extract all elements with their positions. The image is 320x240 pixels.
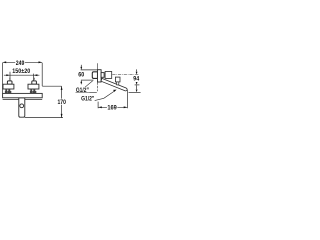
valve vertical centerline below	[96, 82, 98, 91]
mixer body lower line	[3, 99, 43, 101]
spout aerator circle	[20, 104, 24, 108]
dimension 150±20 extension line right	[33, 74, 35, 81]
svg-text:169: 169	[107, 105, 117, 112]
diverter knob on spout	[115, 77, 120, 82]
dimension 150±20 text	[12, 68, 31, 74]
svg-text:G1/2”: G1/2”	[81, 96, 94, 103]
dimension 249 line	[3, 61, 43, 63]
svg-text:249: 249	[16, 60, 25, 67]
svg-text:94: 94	[133, 76, 139, 83]
right fitting centerline dash	[33, 78, 35, 80]
spout (front)	[19, 98, 25, 117]
dimension 249 text	[15, 60, 25, 65]
dimension 150±20 outside arrow right	[34, 74, 38, 76]
left fitting cap	[7, 81, 12, 84]
dimension 60 line tails	[80, 65, 82, 67]
right fitting cap	[32, 81, 37, 84]
dimension 249 arrow left	[3, 61, 7, 63]
valve vertical centerline above	[96, 63, 98, 69]
right fitting nut	[28, 84, 39, 89]
dimension 150±20 line	[4, 74, 40, 76]
dimension 94 arrow at axis	[136, 72, 138, 75]
dimension 169 arrow right	[124, 106, 128, 108]
dimension 94 line middle segment	[136, 85, 138, 89]
dimension 170 arrow top	[61, 86, 63, 90]
right fitting feet	[30, 91, 33, 93]
dimension 60 text	[78, 72, 85, 78]
dimension 169 text	[107, 104, 118, 110]
diverter knob neck	[117, 82, 119, 85]
dimension 170 line	[61, 86, 63, 98]
dimension 170 arrow bottom	[61, 114, 63, 118]
dimension 60 outside arrow top	[80, 67, 82, 70]
dimension 170 bottom extension line	[25, 117, 63, 119]
dimension 249 arrow right	[39, 61, 43, 63]
dimension 150±20 outside arrow left	[6, 74, 10, 76]
mixer body (front)	[3, 93, 43, 97]
dimension 60 outside arrow bottom	[80, 80, 82, 83]
dimension 94 arrow at spout level	[136, 82, 138, 85]
valve body block (side)	[98, 70, 102, 82]
leader from G1/2" upper to wall union	[85, 81, 93, 87]
dimension 94 bottom extension line	[129, 91, 141, 93]
valve axis dash-dot right segment	[112, 74, 139, 76]
label G1/2" upper	[75, 87, 89, 92]
dimension 249 extension line left	[2, 63, 4, 93]
spout (side) angled bar	[101, 78, 127, 90]
svg-text:60: 60	[78, 72, 84, 79]
dimension 249 extension line right	[41, 63, 43, 86]
svg-text:170: 170	[57, 99, 66, 106]
dimension 169 right extension line	[126, 90, 128, 109]
leader arrowhead	[113, 90, 117, 92]
dimension 169 left extension line	[97, 102, 99, 109]
handle knob square (side)	[105, 72, 112, 79]
dimension 170 top extension line	[42, 85, 61, 87]
left fitting feet	[5, 91, 8, 93]
dimension 94 short line at spout level	[135, 84, 140, 86]
dimension 60 bottom extension line	[81, 79, 94, 81]
left fitting legs	[5, 89, 7, 91]
dimension 94 arrow at outlet bottom	[136, 90, 138, 93]
dimension 94 line tail top	[136, 69, 138, 71]
svg-text:150±20: 150±20	[12, 68, 30, 75]
left fitting nut	[3, 84, 14, 89]
dimension 150±20 extension line left	[9, 72, 11, 81]
dimension 60 top extension line	[81, 69, 98, 71]
valve neck (side)	[101, 73, 104, 78]
left fitting centerline dash	[9, 78, 11, 80]
dimension 170 text	[57, 99, 67, 105]
svg-text:G1/2”: G1/2”	[76, 87, 89, 94]
valve wall union knob (side)	[92, 72, 97, 79]
right fitting legs	[30, 89, 32, 91]
dimension 169 line	[98, 106, 127, 108]
leader landing line under G1/2" upper	[76, 91, 97, 93]
dimension 169 arrow left	[98, 106, 102, 108]
leader from G1/2" lower to spout underside	[94, 91, 115, 101]
label G1/2" lower	[80, 95, 95, 101]
